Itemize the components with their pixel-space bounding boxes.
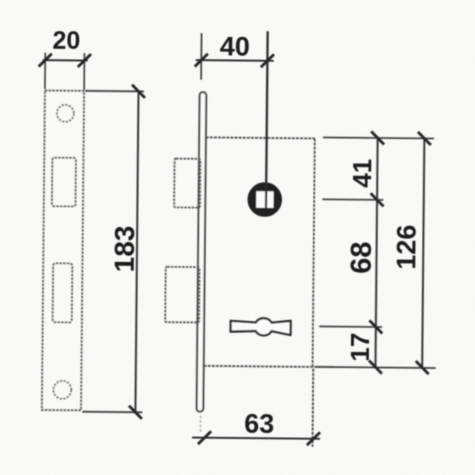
faceplate latch cutout (52, 158, 76, 207)
dimension 20: tick left (39, 54, 52, 67)
keyhole (key bit profile) (231, 318, 291, 336)
dimension 40: extension line left (200, 33, 202, 79)
faceplate bottom screw hole (53, 381, 71, 399)
spindle hub (251, 186, 278, 213)
dimension 63: dimension line (192, 438, 320, 439)
centre line through hub (40 dim right extension) (266, 31, 268, 208)
dimension 183: tick top (132, 85, 145, 98)
dimension 63: left extension line (faint) (199, 416, 201, 434)
dimension line 126 (outer) (422, 138, 424, 367)
right dims: bottom extension line (316, 367, 436, 368)
faceplate bolt cutout (53, 263, 73, 322)
dimension 20: extension line left (44, 53, 46, 89)
dimension 183: top extension line (85, 90, 143, 93)
lock body bottom edge (204, 366, 334, 367)
dimension 63: tick left (198, 431, 211, 444)
right dims: keyhole centre extension line (319, 325, 382, 328)
latch bolt (protruding) (174, 159, 200, 208)
faceplate outline (left view) (42, 90, 84, 410)
dimension 183: dimension line (135, 91, 138, 412)
dead bolt (protruding) (165, 267, 200, 323)
dimension 20: tick right (78, 54, 91, 67)
dimension 20: dimension line (43, 59, 88, 61)
lock body top edge (206, 137, 315, 138)
dimension 40: tick right (261, 54, 274, 67)
right dims: hub centre extension line (322, 198, 383, 201)
fore-end plate (edge view) (197, 92, 207, 412)
dimension 183: tick bottom (129, 406, 142, 419)
inner ticks (371, 131, 384, 144)
right dims: top extension line (323, 137, 434, 138)
dimension 63: right extension line (311, 369, 314, 447)
dimension 63: tick right (307, 432, 320, 445)
dimension 183: bottom extension line (82, 411, 142, 414)
outer ticks (418, 132, 431, 145)
dimension 40: dimension line (196, 59, 274, 62)
faceplate top screw hole (57, 105, 74, 122)
paper grain overlay (0, 0, 1, 1)
dimension 40: tick left (195, 54, 208, 67)
lock body right edge (313, 138, 315, 366)
dimension 20: extension line right (83, 53, 85, 89)
dimension line 41/68/17 (inner) (375, 138, 377, 367)
